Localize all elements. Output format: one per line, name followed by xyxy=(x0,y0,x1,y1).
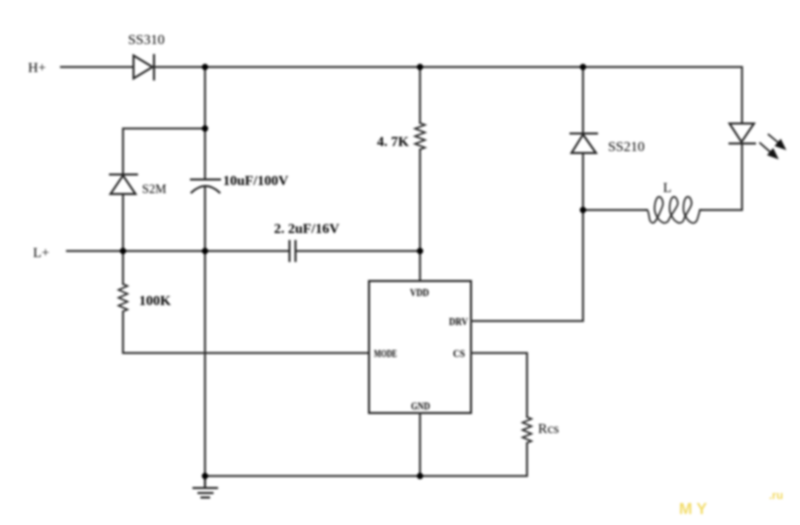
svg-text:H+: H+ xyxy=(28,61,46,76)
svg-text:L: L xyxy=(663,181,672,196)
svg-text:10uF/100V: 10uF/100V xyxy=(223,174,288,189)
svg-text:L+: L+ xyxy=(33,246,50,261)
svg-text:VDD: VDD xyxy=(410,287,429,299)
svg-text:100K: 100K xyxy=(139,294,171,309)
svg-text:Rcs: Rcs xyxy=(538,422,559,437)
svg-text:GND: GND xyxy=(411,401,430,413)
svg-text:SS310: SS310 xyxy=(128,33,165,48)
svg-text:DRV: DRV xyxy=(449,316,468,328)
svg-text:4. 7K: 4. 7K xyxy=(377,135,409,150)
svg-text:MY: MY xyxy=(679,501,711,518)
svg-text:.ru: .ru xyxy=(769,490,783,502)
svg-text:S2M: S2M xyxy=(142,182,166,196)
svg-text:MODE: MODE xyxy=(374,348,397,360)
svg-text:SS210: SS210 xyxy=(608,140,645,155)
svg-text:2. 2uF/16V: 2. 2uF/16V xyxy=(274,222,339,237)
svg-text:CS: CS xyxy=(453,348,465,360)
